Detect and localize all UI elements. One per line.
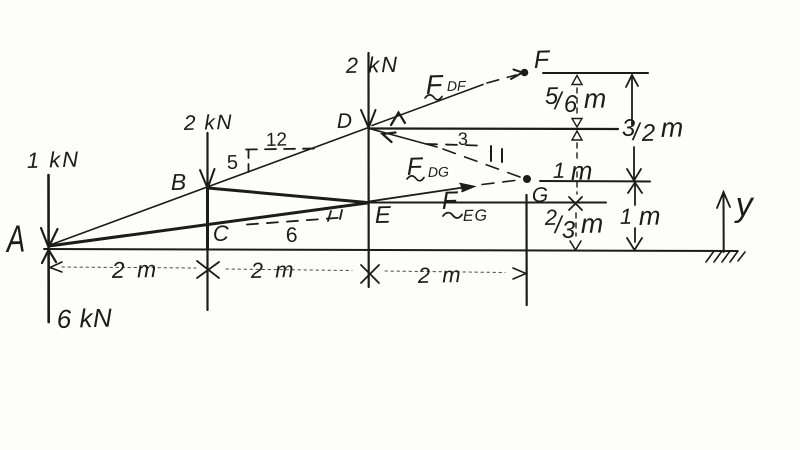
force line EG (solid arrow then dashed to G) bbox=[369, 180, 519, 202]
label F_DF bbox=[426, 75, 466, 94]
cross arrows at B column bbox=[197, 261, 219, 278]
label 2 m (A-B) bbox=[112, 261, 156, 278]
label 2 m (D-G) bbox=[418, 267, 460, 283]
bottom dimension dashed line D-G bbox=[385, 271, 505, 273]
bottom dimension dashed line A-B bbox=[62, 267, 196, 268]
arrowhead on DG pointing to D bbox=[383, 133, 396, 143]
arrowhead on DF near D bbox=[391, 113, 405, 126]
label 2 kN at B bbox=[184, 114, 232, 130]
dimension 2/3 m dashes and arrow bbox=[570, 213, 581, 250]
slope tick 1 on AE line bbox=[328, 210, 342, 221]
F-level reference line bbox=[543, 72, 648, 74]
dimension 5/6 m open arrows and dashes bbox=[572, 76, 582, 128]
baseline (ground reference line) bbox=[44, 249, 737, 251]
dimension 1 m (D to E) arrow, dashes and cross bbox=[569, 131, 582, 210]
slope triangle 5-12 dashed legs bbox=[246, 149, 317, 173]
bottom dimension dashed line B-D bbox=[226, 269, 352, 271]
slope label 5 bbox=[227, 155, 237, 169]
right arrowhead at G column bbox=[513, 268, 526, 279]
slope label 3 bbox=[458, 132, 467, 145]
D-level reference line bbox=[369, 127, 618, 130]
node E label bbox=[375, 206, 391, 223]
dot at G bbox=[523, 175, 531, 183]
E-level reference line bbox=[368, 202, 606, 204]
ground hatching at right support bbox=[706, 251, 745, 262]
tilde under F_DF bbox=[425, 95, 442, 100]
cross arrows at D column bbox=[361, 265, 379, 283]
label 1 m lower bbox=[620, 209, 659, 225]
node G label bbox=[533, 187, 548, 202]
arrowhead and dot at F end bbox=[511, 69, 528, 79]
slope triangle 6-1 dashed leg bbox=[247, 218, 343, 225]
node B label bbox=[171, 174, 185, 190]
label 1 m upper bbox=[553, 163, 591, 180]
slope label 6 bbox=[287, 227, 297, 242]
y axis label bbox=[734, 198, 755, 223]
node D label bbox=[337, 113, 351, 128]
arrowhead on EG bbox=[460, 184, 474, 192]
force arrow 1 kN down at A bbox=[41, 228, 58, 247]
force arrow 6 kN up at A bbox=[42, 250, 56, 263]
vertical line at B (force line and member BC) bbox=[206, 133, 208, 310]
member BE (thick) bbox=[208, 188, 367, 203]
vertical line at G column bbox=[525, 195, 527, 305]
member AD (top chord through B) bbox=[50, 128, 369, 246]
G-level reference line bbox=[540, 180, 650, 183]
support line at A (vertical member through A) bbox=[47, 175, 50, 322]
label 3/2 m bbox=[622, 119, 682, 141]
dimension 3/2 m line with arrows bbox=[626, 75, 641, 181]
vertical line at D (force line and column) bbox=[367, 53, 369, 287]
label 6 kN bbox=[58, 308, 112, 328]
slope tick 1 at DG bbox=[491, 146, 502, 162]
label 5/6 m bbox=[545, 87, 605, 112]
label 2 m (B-D) bbox=[251, 262, 293, 278]
label 1 kN bbox=[27, 151, 78, 168]
left arrowhead at A bbox=[50, 262, 62, 272]
slope label 12 bbox=[267, 132, 286, 146]
force line DF (solid then dashed to F) bbox=[372, 75, 516, 126]
dimension 1 m (G to base) arrows bbox=[627, 183, 642, 251]
label F_EG bbox=[442, 191, 486, 221]
tilde under F_DG bbox=[407, 176, 424, 181]
member AE (thick lower diagonal) bbox=[49, 203, 367, 246]
label 2 kN at D bbox=[346, 56, 398, 73]
tilde under F_EG bbox=[443, 213, 462, 218]
force arrow 2 kN down at D bbox=[361, 110, 376, 128]
label F_DG bbox=[407, 157, 448, 177]
slope triangle 3-1 dashed leg at DG bbox=[426, 144, 478, 146]
label 2/3 m bbox=[545, 209, 603, 238]
node C label bbox=[214, 225, 229, 241]
y axis arrow bbox=[717, 192, 730, 252]
node F label bbox=[534, 50, 550, 68]
node A label bbox=[5, 225, 24, 252]
force line DG (solid then dashed to G) bbox=[371, 129, 520, 177]
force arrow 2 kN down at B bbox=[200, 169, 215, 188]
